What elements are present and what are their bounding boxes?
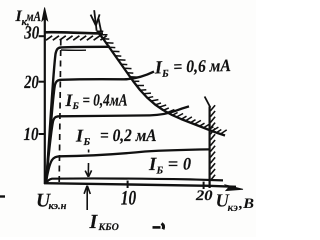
svg-text:Б: Б [161, 69, 169, 80]
svg-text:КБО: КБО [98, 222, 119, 233]
svg-text:20: 20 [195, 188, 213, 204]
x-axis tick 10 [127, 181, 129, 188]
x-axis arrowhead [225, 185, 244, 191]
y-axis (Ik, mA) [44, 13, 46, 184]
hatching right of vertical limit [210, 105, 215, 180]
stray scan mark left edge [0, 195, 5, 197]
x-axis (Uke, V) [44, 183, 236, 187]
svg-text:20: 20 [24, 73, 39, 93]
svg-text:10: 10 [121, 188, 136, 210]
svg-text:= 0,4мА: = 0,4мА [83, 91, 128, 110]
svg-text:= 0,6 мА: = 0,6 мА [173, 55, 231, 76]
leader hatch at top of vertical limit [205, 97, 211, 108]
double-stroke under 0.6mA top curve flat [61, 49, 86, 51]
x-axis tick 20 [203, 182, 205, 189]
svg-text:30: 30 [23, 24, 39, 44]
Uke,max vertical limit line [209, 107, 211, 189]
curve Ib=0 [46, 178, 223, 183]
curve Ib=0.4 mA [46, 106, 189, 183]
svg-text:Б: Б [72, 101, 80, 112]
svg-text:0: 0 [183, 154, 191, 174]
y-axis tick 20 [39, 81, 45, 83]
hatching along hyperbola [97, 31, 226, 134]
svg-text:,В: ,В [238, 196, 254, 212]
curve Ib=0.6mA top (unclipped flat ~27mA) [46, 47, 110, 183]
figure caption a) partially clipped [153, 226, 161, 229]
svg-text:Б: Б [156, 165, 164, 176]
y-axis tick 10 [39, 133, 45, 135]
hatching under Ik,max line [46, 36, 107, 40]
down arrow to Ib=0 curve (Ikbo gap) [85, 150, 91, 177]
svg-text:10: 10 [24, 125, 39, 145]
svg-text:= 0,2 мА: = 0,2 мА [100, 125, 157, 145]
y-axis tick 30 [39, 35, 45, 37]
y-axis arrowhead [42, 8, 48, 22]
svg-text:=: = [168, 154, 179, 174]
label Ib = 0,6 mA [154, 55, 232, 80]
curve Ib=0.2 mA [46, 149, 209, 183]
svg-text:I: I [89, 211, 99, 233]
dashed line U_ke,sat [59, 40, 61, 183]
svg-text:кэ.н: кэ.н [49, 201, 67, 212]
curve Ib=0.6 mA (flat ~20mA, rises to label) [46, 72, 154, 183]
Ik,max limit line (hatched, at 30 mA) [44, 32, 103, 33]
up arrow to x-axis (Ikbo gap) [84, 186, 90, 210]
Pk,max hyperbola limit [97, 31, 225, 136]
down arrow pointing at Ik,max / hyperbola junction [91, 10, 101, 31]
svg-text:кэ: кэ [228, 202, 239, 214]
svg-text:Б: Б [83, 137, 91, 148]
